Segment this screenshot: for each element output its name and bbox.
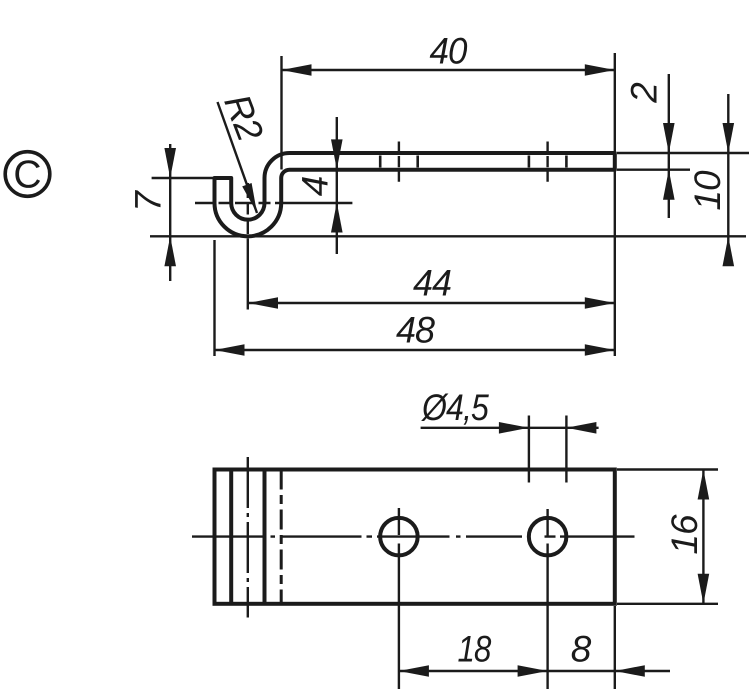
dimension 4: [295, 117, 343, 254]
dimension diameter 4,5: [420, 387, 598, 434]
dimension 48: [215, 310, 615, 356]
plan horizontal centerline: [192, 535, 635, 537]
svg-text:10: 10: [687, 170, 728, 211]
hole centerline on strip (left): [398, 142, 400, 183]
dimension 40: [282, 31, 615, 76]
svg-text:40: 40: [430, 31, 468, 72]
hook inner tangent edge line: [263, 470, 267, 604]
svg-text:44: 44: [413, 263, 451, 304]
hidden edge (hook back tangent) dashed: [280, 470, 283, 604]
svg-text:7: 7: [128, 190, 169, 212]
hole left: [380, 518, 418, 556]
hole left vertical centerline: [398, 508, 400, 689]
extension lines bottom dims: [614, 606, 616, 689]
extension line strip bottom right (dim 2): [617, 168, 690, 170]
extension line left end (dim 48): [213, 240, 215, 356]
extension line right end (dims 40 44 48): [614, 53, 616, 356]
profile outline (side view of hook): [215, 153, 615, 236]
extension line lip top (dim 7): [152, 177, 215, 179]
hole right vertical centerline: [546, 509, 548, 689]
svg-text:18: 18: [458, 629, 492, 670]
svg-text:Ø4,5: Ø4,5: [420, 387, 489, 428]
dimension 16: [664, 470, 709, 604]
bend axis centerline: [247, 457, 249, 618]
hole centerline on strip (right): [546, 142, 548, 183]
extension lines hole diameter: [528, 416, 530, 483]
svg-text:8: 8: [571, 629, 592, 670]
lip inner edge line: [229, 470, 233, 604]
hook bend horizontal centerline: [195, 202, 278, 204]
svg-text:2: 2: [624, 82, 665, 104]
extension lines dim 16: [617, 468, 718, 470]
dimension 18 and 8: [399, 629, 670, 677]
plan view rectangle: [215, 470, 615, 604]
dimension 2: [624, 74, 675, 218]
extension line strip top right (dims 2 10): [617, 152, 749, 154]
svg-text:48: 48: [396, 310, 435, 351]
svg-text:C: C: [13, 154, 41, 197]
hole edge tick marks on strip (left hole): [379, 156, 382, 168]
extension line for dim 4 (hook center extended): [278, 202, 352, 204]
extension line hook back (dim 40): [280, 56, 282, 170]
dimension 10: [687, 94, 734, 266]
svg-text:16: 16: [664, 514, 705, 555]
long extension line hook bottom (dims 7 and 10): [150, 235, 746, 237]
hole edge tick marks on strip (right hole): [528, 156, 531, 168]
hook bend vertical centerline: [247, 183, 249, 241]
extension line for dim 44 (bend axis extended): [247, 241, 249, 310]
radius leader R2: [216, 89, 271, 213]
dimension 44: [248, 263, 615, 309]
view label circle C: [5, 152, 50, 197]
hole right: [529, 518, 567, 556]
dimension 7: [128, 144, 177, 281]
svg-text:4: 4: [295, 176, 336, 196]
